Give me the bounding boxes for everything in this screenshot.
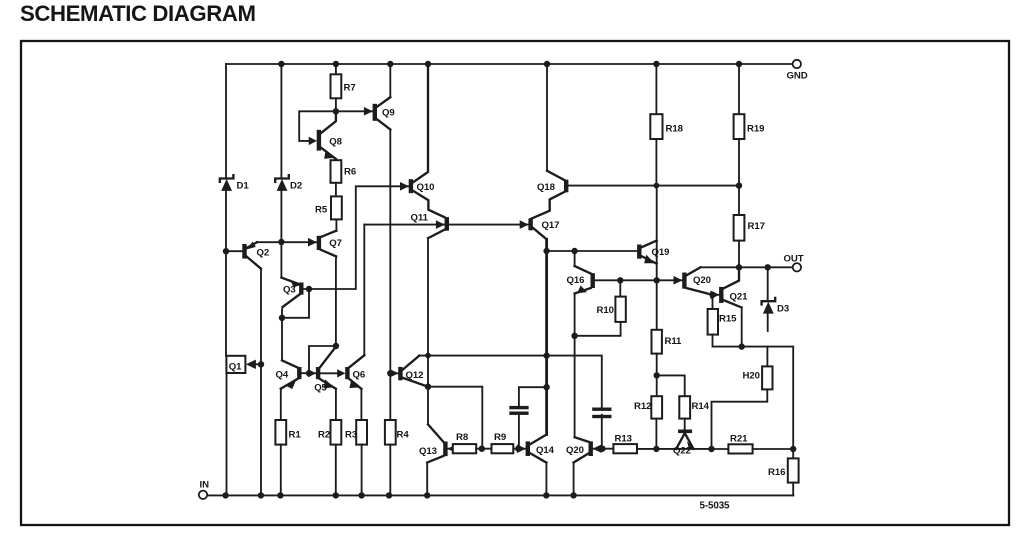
svg-text:R14: R14 (692, 401, 710, 412)
svg-text:IN: IN (200, 480, 210, 491)
wire split to R14 (657, 375, 685, 396)
OUT terminal (793, 263, 801, 271)
wire Q19 base line from Q17 emitter (547, 250, 638, 252)
svg-text:R17: R17 (748, 221, 765, 232)
wire driver column Q17 emitter down to Q14 collector (545, 239, 548, 434)
resistor R7 (331, 74, 342, 98)
capacitor C1 (509, 406, 528, 409)
wire R7 to bias node (335, 98, 337, 111)
transistor Q19 (637, 245, 641, 259)
svg-text:SCHEMATIC DIAGRAM: SCHEMATIC DIAGRAM (20, 1, 256, 26)
wire Q8 diode loop (299, 111, 336, 141)
wire Q2 base from D1 column (226, 250, 243, 252)
svg-text:R11: R11 (665, 336, 683, 347)
transistor Q17 (520, 220, 529, 229)
wire R17 to output line (738, 241, 740, 268)
wire Q11 emitter line from Q6 collector (364, 224, 445, 226)
resistor R17 (734, 215, 745, 241)
svg-text:R6: R6 (344, 166, 356, 177)
node Q4/Q5 base junction (306, 370, 312, 376)
wire R12 to bottom node (655, 419, 657, 449)
wire Q13 emitter to input rail (426, 463, 428, 496)
wire R15/Q21 emitter line to feedback corner (713, 335, 794, 449)
svg-text:Q4: Q4 (276, 369, 289, 380)
node Q20/Q21/R15 junction (709, 292, 715, 298)
wire bottom input rail (206, 494, 794, 496)
resistor H20 (762, 366, 772, 389)
wire Q20 emitter to input rail (573, 463, 575, 496)
svg-text:Q18: Q18 (537, 182, 556, 193)
resistor R5 (331, 196, 342, 219)
node bottom rail junctions (222, 492, 228, 498)
resistor R3 (356, 420, 367, 445)
wire output to D3 (767, 267, 769, 301)
transistor Q14 (517, 444, 526, 453)
svg-text:R21: R21 (730, 433, 748, 444)
wire R3 to input rail (361, 445, 363, 496)
transistor Q2 (242, 244, 246, 259)
wire R1 to input rail (280, 445, 282, 496)
transistor Q3 (281, 278, 299, 285)
wire Q16 emitter column (574, 294, 576, 438)
wire R16 top lead (792, 449, 794, 458)
wire Q6 collector column up to Q11 emitter line (363, 225, 365, 356)
diode D2 (275, 175, 289, 182)
resistor R9 (492, 444, 514, 453)
node Q12 emitter junction (425, 384, 431, 390)
GND terminal (793, 60, 801, 68)
wire R4 to input rail (389, 445, 391, 496)
svg-text:Q20: Q20 (693, 275, 711, 286)
wire Q9 collector to rail (389, 64, 391, 97)
node Q12 base tap (387, 370, 393, 376)
wire Q13 to R8 (447, 448, 453, 450)
wire rail to R7 (335, 64, 337, 74)
svg-text:R3: R3 (345, 429, 357, 440)
svg-text:Q11: Q11 (411, 212, 429, 223)
wire output line to OUT terminal (701, 266, 793, 268)
wire R15 top lead (712, 295, 714, 309)
wire Q3 collector down to mirror node (281, 307, 284, 318)
wire Q1 gate to Q2 emitter column (253, 363, 262, 365)
transistor Q5 (309, 372, 316, 374)
svg-text:Q2: Q2 (257, 247, 270, 258)
node Q21 emitter tap (739, 343, 745, 349)
wire Q14 emitter to input rail (545, 463, 547, 496)
node R7 / Q8 / Q9 bias (333, 108, 339, 114)
svg-text:R10: R10 (597, 305, 614, 316)
transistor Q22 (sense) (684, 419, 686, 430)
svg-text:Q16: Q16 (567, 275, 585, 286)
transistor Q13 (428, 424, 444, 442)
svg-text:Q10: Q10 (417, 182, 435, 193)
wire Q2 emitter column down to input rail (260, 269, 262, 496)
wire R16 to bottom rail (792, 483, 794, 496)
resistor R19 (734, 114, 745, 139)
svg-text:Q1: Q1 (229, 361, 242, 372)
node Q5 collector / Q7 collector junction (333, 343, 339, 349)
resistor R21 (728, 444, 752, 453)
node C2 bottom junction (599, 446, 605, 452)
node Q3 collector / base loop (279, 315, 285, 321)
transistor Q11 (436, 220, 445, 229)
node C1 top junction on driver column (543, 384, 549, 390)
wire Q16 base line to Q20 (595, 279, 683, 281)
wire Q2/Q7 emitter link through D2 (257, 241, 317, 243)
node R19 bottom junction (736, 182, 742, 188)
wire Q18 base line (568, 185, 739, 187)
wire compensation line Q12 collector to C2 (419, 356, 602, 408)
resistor R15 (708, 309, 718, 335)
resistor R18 (650, 114, 662, 139)
svg-text:R18: R18 (666, 123, 684, 134)
wire node to R21 (712, 448, 729, 450)
wire Q21 emitter drop (741, 308, 743, 347)
transistor Q8 (309, 137, 317, 145)
svg-text:R16: R16 (768, 467, 785, 478)
diode D1 (220, 175, 234, 182)
transistor Q16 (574, 251, 576, 266)
svg-text:Q17: Q17 (542, 220, 560, 231)
wire Q10 base line and drop to Q3 base loop (309, 186, 409, 289)
wire D1 column upper (225, 64, 227, 178)
svg-text:D3: D3 (777, 303, 789, 314)
svg-text:R7: R7 (344, 83, 356, 94)
wire R18 to Q18 base line (655, 139, 657, 186)
resistor R11 (652, 330, 662, 354)
transistor Q1 (input device box) (226, 356, 245, 373)
wire Q20 base to R13 (593, 448, 614, 450)
wire split to R12 (656, 375, 658, 396)
transistor Q4 (282, 360, 297, 367)
svg-text:R19: R19 (747, 123, 764, 134)
node R17 bottom / output (736, 264, 742, 270)
svg-text:Q21: Q21 (730, 291, 749, 302)
wire Q11 base line to Q17 (449, 224, 529, 226)
wire Q12 emitter over to R8/R9 node (428, 387, 482, 449)
svg-text:Q13: Q13 (419, 446, 437, 457)
wire R2 to input rail (335, 445, 337, 496)
svg-text:Q12: Q12 (406, 370, 424, 381)
node Q16 emitter / R10 loop (571, 333, 577, 339)
svg-text:Q5: Q5 (314, 383, 327, 394)
node R12 bottom junction (653, 446, 659, 452)
svg-text:GND: GND (787, 71, 808, 82)
wire rail to R18 (655, 64, 657, 114)
wire R6 to R5 (335, 183, 337, 197)
node R18 bottom tap (654, 183, 660, 189)
wire Q4 base stub (301, 372, 309, 374)
svg-text:H20: H20 (743, 370, 760, 381)
resistor R16 (788, 458, 799, 482)
svg-text:D1: D1 (237, 181, 250, 192)
transistor Q7 (308, 238, 317, 247)
wire Q1 box bottom to input rail (226, 373, 228, 495)
svg-text:Q8: Q8 (329, 136, 342, 147)
resistor R4 (385, 420, 396, 445)
svg-text:R1: R1 (289, 429, 302, 440)
transistor Q21 (713, 294, 720, 296)
node compensation line / driver column (543, 352, 549, 358)
resistor R13 (613, 444, 637, 453)
wire Q3 base loop (282, 289, 309, 318)
wire Q5 link to Q6 (320, 372, 339, 374)
wire Q4 emitter to R1 (280, 389, 282, 420)
svg-text:Q7: Q7 (329, 238, 342, 249)
resistor R10 (615, 297, 625, 322)
wire R11 to R12/R14 split (656, 354, 658, 376)
node R16 top junction (790, 446, 796, 452)
transistor Q20 (output) (674, 276, 683, 285)
svg-text:D2: D2 (290, 181, 302, 192)
svg-text:R4: R4 (397, 429, 410, 440)
transistor Q18 (547, 171, 564, 180)
IN terminal (199, 491, 207, 499)
wire Q9 base feed (336, 110, 373, 112)
svg-text:OUT: OUT (784, 253, 804, 264)
wire rail to Q18 collector (546, 64, 548, 171)
node D3 top / output (765, 264, 771, 270)
diode D3 (762, 298, 776, 305)
svg-text:R13: R13 (615, 433, 632, 444)
svg-text:Q6: Q6 (353, 369, 366, 380)
wire R8 to R9 (476, 448, 491, 450)
resistor R1 (275, 420, 286, 445)
svg-text:R8: R8 (456, 432, 469, 443)
wire Q5 emitter to R2 (335, 389, 337, 420)
svg-text:Q3: Q3 (283, 284, 296, 295)
wire mirror node down to Q4 (281, 318, 283, 361)
wire D2 column to Q3 (280, 191, 282, 278)
svg-text:Q14: Q14 (536, 445, 555, 456)
node Q19 emitter / output base line (654, 277, 660, 283)
wire R10 bottom loop (575, 322, 621, 336)
wire R10 top lead (619, 280, 621, 296)
wire Q8 emitter to R6 (335, 159, 337, 160)
transistor Q9 (364, 107, 373, 116)
wire R5 to Q7 (335, 219, 337, 230)
node R12/R14 split (654, 372, 660, 378)
svg-text:Q20: Q20 (566, 445, 584, 456)
resistor R12 (651, 396, 662, 418)
resistor R14 (679, 396, 690, 418)
resistor R6 (331, 160, 342, 183)
wire D2 column upper (280, 64, 282, 178)
transistor Q20 (driver) (575, 437, 589, 442)
wire H20 top lead (766, 347, 768, 367)
resistor R8 (453, 444, 476, 453)
wire D3 lower lead (broken at crossing) (767, 314, 769, 331)
capacitor C2 (592, 408, 611, 411)
node R21 left junction (708, 446, 714, 452)
node Q17 emitter junction (543, 248, 549, 254)
transistor Q6 (337, 369, 345, 377)
svg-text:R5: R5 (315, 204, 328, 215)
svg-text:Q22: Q22 (673, 445, 691, 456)
svg-text:5-5035: 5-5035 (700, 501, 731, 512)
wire Q11 collector column down to Q13 (427, 238, 429, 424)
transistor Q10 (400, 182, 409, 191)
node Q16 collector tap (571, 248, 577, 254)
wire R9 to Q14 (513, 448, 526, 450)
svg-text:Q9: Q9 (382, 107, 395, 118)
wire R21 to R16 node (753, 448, 794, 450)
node column / compensation line crossing (425, 353, 431, 359)
wire Q6 emitter to R3 (360, 389, 362, 420)
wire R19 to R17 (738, 139, 740, 215)
svg-text:R15: R15 (719, 314, 737, 325)
svg-text:R12: R12 (634, 401, 651, 412)
wire base junction riser and link to current-mirror node (309, 346, 336, 373)
wire D1 column to Q1 box (225, 191, 227, 356)
wire H20 bottom loop to R21 node (712, 389, 768, 449)
svg-text:R9: R9 (494, 432, 506, 443)
node R8/R9 junction (479, 446, 485, 452)
node R10 top tap (617, 277, 623, 283)
node top rail junctions (278, 61, 284, 67)
wire Q7 collector down to mirror node (335, 256, 337, 346)
wire R13 to Q22 node (637, 448, 712, 450)
wire R18 column through Q19 down to R11 (656, 186, 658, 330)
wire Q9 emitter column down to Q12 base and R4 (389, 130, 391, 421)
svg-text:Q19: Q19 (652, 247, 670, 258)
svg-text:R2: R2 (318, 429, 330, 440)
wire top supply rail (226, 63, 792, 65)
resistor R2 (331, 420, 342, 445)
wire rail to R19 (738, 64, 740, 114)
node Q2 base tap (223, 248, 229, 254)
node C1 bottom junction (515, 446, 521, 452)
transistor Q12 (390, 372, 398, 374)
